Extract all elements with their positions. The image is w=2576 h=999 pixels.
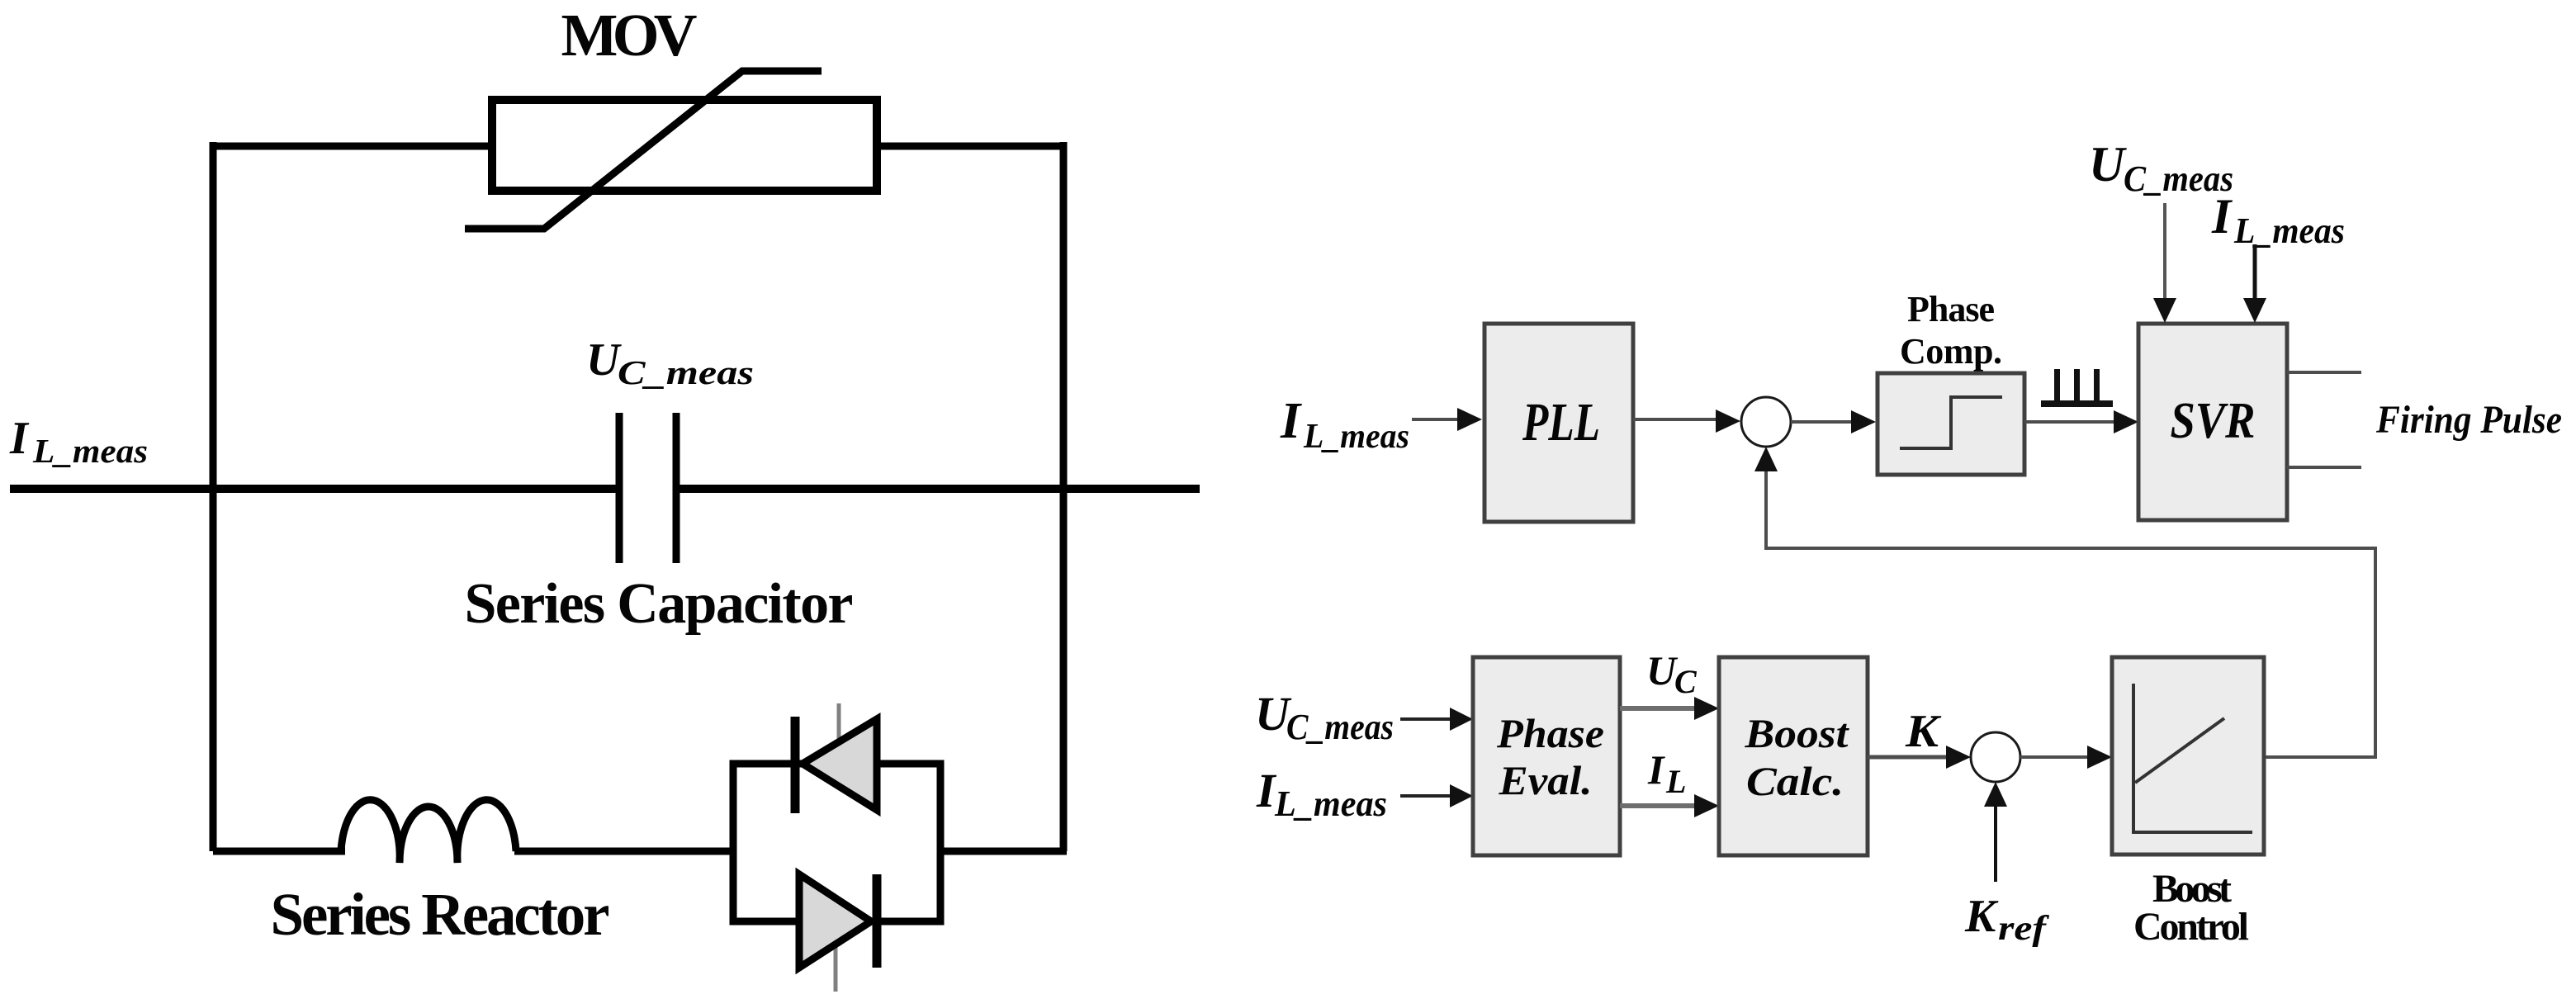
block Boost Control: [2112, 657, 2264, 855]
boost control graph glyph ramp: [2135, 718, 2224, 783]
block PLL: [1485, 324, 1633, 522]
svg-text:L: L: [1665, 763, 1686, 800]
wire: U_C link with arrowhead: [1620, 706, 1698, 711]
MOV varistor diagonal strike: [465, 71, 822, 229]
svg-text:Control: Control: [2133, 905, 2249, 949]
svg-text:PLL: PLL: [1522, 392, 1600, 452]
pulse train glyph: [2041, 400, 2113, 407]
wire: U_C_meas to Phase Eval with arrowhead: [1400, 717, 1452, 721]
wire: bottom branch left segment: [213, 848, 345, 855]
capacitor C right plate: [673, 413, 680, 563]
wire: input to PLL with arrowhead: [1412, 418, 1461, 421]
svg-text:L_meas: L_meas: [1303, 418, 1409, 456]
svg-text:I: I: [1647, 746, 1665, 793]
wire: main line left segment: [10, 485, 619, 493]
feedback wire: boost control output up to circle1: [1766, 457, 2375, 757]
thyristor Q1 top gate: [837, 703, 841, 742]
wire: PLL to summing circle with arrowhead: [1633, 418, 1720, 421]
capacitor C left plate: [616, 413, 623, 563]
svg-text:U: U: [2089, 137, 2127, 192]
wire: circle1 to Phase Comp with arrowhead: [1791, 420, 1855, 424]
svg-text:Phase: Phase: [1496, 710, 1604, 756]
svg-text:L_meas: L_meas: [1274, 784, 1387, 824]
wire: top branch right segment: [874, 143, 1067, 150]
svg-text:C_meas: C_meas: [1286, 707, 1394, 747]
wire: K to circle2 with arrowhead: [1868, 755, 1950, 760]
wire: firing pulse upper output: [2287, 371, 2361, 374]
svg-text:U: U: [586, 334, 622, 386]
wire: main line right segment: [676, 485, 1200, 493]
svg-text:Comp.: Comp.: [1900, 331, 2002, 372]
thyristor Q1 top body: [803, 719, 877, 810]
wire: U_C_meas down into SVR with arrowhead: [2163, 203, 2166, 304]
summing node circle 1: [1741, 397, 1791, 447]
svg-text:I: I: [2211, 189, 2233, 244]
wire: I_L_meas to Phase Eval with arrowhead: [1400, 794, 1452, 798]
arrowhead into circle1 bottom: [1754, 447, 1778, 471]
thyristor Q1 top cathode bar: [791, 717, 800, 813]
wire: firing pulse lower output: [2287, 466, 2361, 469]
block Boost Calc: [1719, 657, 1868, 855]
svg-text:SVR: SVR: [2171, 393, 2256, 449]
thyristor Q2 bottom cathode bar: [873, 874, 882, 968]
MOV varistor body: [492, 100, 877, 191]
svg-text:Series Reactor: Series Reactor: [271, 881, 610, 948]
wire: left bus vertical: [210, 142, 217, 851]
boost control graph glyph horizontal axis: [2133, 831, 2252, 834]
thyristor Q2 bottom body: [799, 874, 871, 968]
svg-text:Eval.: Eval.: [1498, 757, 1592, 803]
svg-text:C: C: [1674, 663, 1698, 700]
block SVR: [2138, 324, 2287, 520]
svg-text:L_meas: L_meas: [2233, 211, 2345, 251]
svg-text:Boost: Boost: [1744, 710, 1849, 756]
thyristor Q2 bottom gate: [834, 945, 838, 992]
svg-text:I: I: [9, 413, 30, 464]
svg-text:Phase: Phase: [1907, 289, 1995, 329]
wire: circle2 to Boost Control with arrowhead: [2020, 755, 2091, 759]
svg-text:K: K: [1905, 706, 1942, 757]
wire: thyristor loop to right bus: [940, 848, 1067, 855]
svg-text:L_meas: L_meas: [32, 432, 148, 470]
summing node circle 2: [1971, 732, 2020, 782]
svg-text:C_meas: C_meas: [618, 353, 754, 391]
svg-text:Firing Pulse: Firing Pulse: [2375, 398, 2562, 442]
thyristor loop frame: [733, 764, 940, 921]
wire: reactor to thyristor loop: [514, 848, 736, 855]
svg-text:Series Capacitor: Series Capacitor: [465, 572, 854, 636]
inductor L series reactor: [341, 800, 516, 863]
wire: right bus vertical: [1060, 142, 1068, 851]
phase comp step glyph: [1900, 397, 2002, 448]
svg-text:K: K: [1964, 891, 1999, 942]
wire: I_L_meas down into SVR with arrowhead: [2253, 244, 2257, 304]
block Phase Comp: [1878, 373, 2024, 475]
wire: I_L link with arrowhead: [1620, 803, 1698, 808]
wire: top branch left segment: [210, 143, 495, 150]
block Phase Eval: [1473, 657, 1620, 855]
svg-text:Calc.: Calc.: [1746, 758, 1844, 804]
wire: K_ref up into circle2 with arrowhead: [1994, 792, 1997, 882]
svg-text:ref: ref: [1998, 910, 2050, 948]
svg-text:MOV: MOV: [561, 2, 698, 69]
boost control graph glyph vertical axis: [2132, 684, 2135, 834]
wire: Phase Comp to SVR with arrowhead: [2024, 420, 2118, 424]
svg-text:I: I: [1280, 393, 1302, 449]
